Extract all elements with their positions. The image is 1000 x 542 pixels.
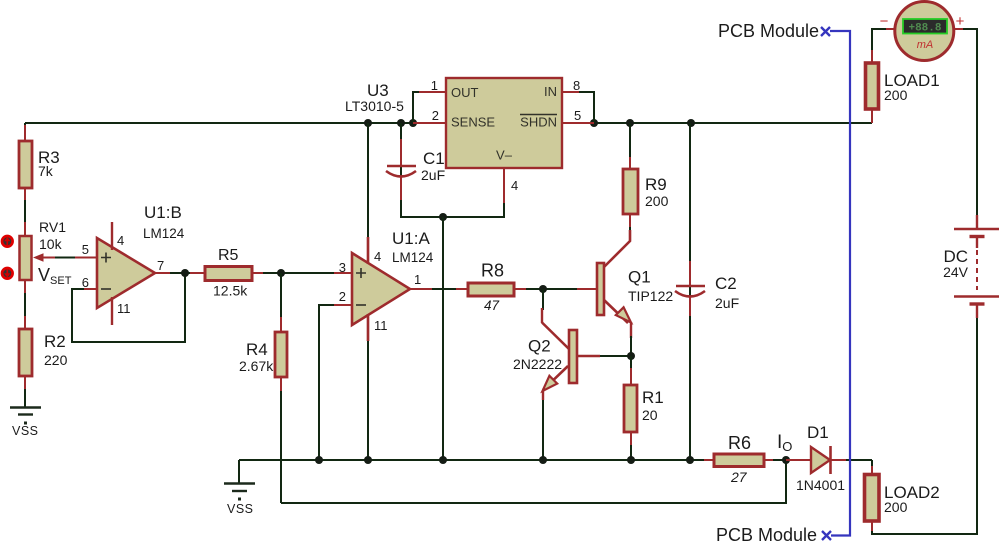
svg-text:4: 4 — [511, 178, 518, 193]
svg-text:LM124: LM124 — [392, 250, 434, 265]
svg-text:PCB Module: PCB Module — [716, 525, 817, 542]
wire: U3 pin2 SENSE to bus — [413, 122, 446, 124]
wire: node down to Q2 collector — [542, 289, 544, 310]
svg-text:IN: IN — [544, 84, 557, 99]
ground VSS (left) — [10, 408, 41, 439]
wire: R5 to U1:A pin3 — [252, 272, 352, 274]
svg-text:2.67k: 2.67k — [239, 358, 274, 374]
wire: C2 branch from bus to ground bus — [689, 123, 691, 460]
wire: D1 cathode to LOAD2 — [830, 460, 872, 475]
svg-text:PCB Module: PCB Module — [718, 21, 819, 41]
svg-text:SENSE: SENSE — [451, 115, 495, 130]
svg-text:2: 2 — [432, 108, 439, 123]
resistor LOAD1 — [866, 63, 940, 109]
svg-text:5: 5 — [574, 108, 581, 123]
svg-text:10k: 10k — [39, 236, 63, 252]
junction: R5/R4/pin3 node — [277, 269, 285, 277]
wire: R9 branch from bus — [629, 123, 631, 169]
potentiometer RV1 — [2, 219, 72, 287]
svg-text:47: 47 — [484, 298, 500, 313]
wire: Q2 base to emitter node of Q1 — [600, 355, 631, 357]
svg-text:D1: D1 — [807, 423, 829, 442]
svg-text:R6: R6 — [728, 433, 751, 453]
resistor R5 — [205, 247, 252, 299]
wire: U1:A pin4 from top bus — [367, 123, 369, 263]
svg-text:1N4001: 1N4001 — [796, 477, 845, 493]
transistor Q1 (TIP122) — [597, 230, 673, 338]
wire: ground bus (bottom) — [239, 459, 714, 461]
wire: Io node to D1 anode — [786, 459, 811, 461]
wire: top positive bus — [25, 122, 872, 124]
svg-text:R2: R2 — [44, 332, 66, 351]
svg-text:LT3010-5: LT3010-5 — [345, 98, 404, 114]
svg-text:4: 4 — [374, 249, 381, 264]
svg-text:−: − — [880, 13, 889, 30]
wire: R9 to Q1 collector — [629, 214, 631, 232]
svg-text:12.5k: 12.5k — [213, 283, 248, 299]
svg-text:VSS: VSS — [227, 502, 254, 516]
diode D1 (1N4001) — [796, 423, 845, 493]
svg-text:200: 200 — [884, 87, 908, 103]
svg-text:4: 4 — [117, 233, 124, 248]
svg-text:C1: C1 — [423, 149, 445, 168]
resistor R1 — [624, 385, 664, 432]
svg-text:R4: R4 — [246, 340, 268, 359]
svg-text:6: 6 — [82, 275, 89, 290]
svg-text:R5: R5 — [218, 247, 239, 264]
resistor R4 — [239, 332, 287, 377]
wire: C1 branch (bus to V- pin of U3) — [401, 123, 504, 217]
svg-text:SHDN: SHDN — [520, 115, 557, 130]
wire: Q1 emitter to junction — [630, 336, 632, 356]
wire: Q2 emitter down to ground bus — [542, 391, 544, 460]
wire: U3 pin5 SHDN to bus — [562, 122, 594, 124]
wire: U1:A output to R8 — [410, 288, 468, 290]
battery DC 24V — [943, 215, 999, 318]
svg-text:R8: R8 — [481, 261, 504, 281]
svg-text:3: 3 — [339, 260, 346, 275]
svg-text:Q2: Q2 — [528, 337, 551, 356]
svg-text:200: 200 — [884, 499, 908, 515]
junction: C1 bottom / V- node — [439, 213, 447, 221]
wire: U1:A pin11 to ground bus — [367, 313, 369, 460]
svg-text:OUT: OUT — [451, 85, 479, 100]
svg-text:LM124: LM124 — [143, 226, 185, 241]
wire: battery positive up to ammeter + — [954, 29, 977, 215]
wire: junction down to R1 — [630, 356, 632, 385]
svg-text:+: + — [956, 13, 965, 30]
svg-text:mA: mA — [917, 39, 934, 51]
svg-text:20: 20 — [642, 407, 658, 423]
svg-text:1: 1 — [414, 272, 421, 287]
svg-text:U1:A: U1:A — [392, 229, 430, 248]
svg-text:Q1: Q1 — [628, 268, 651, 287]
wire: V- node down to ground bus — [442, 217, 444, 460]
wire: LOAD1 bottom to top bus — [871, 109, 873, 123]
PCB Module terminal (bottom) — [716, 525, 831, 542]
svg-text:8: 8 — [573, 78, 580, 93]
svg-text:200: 200 — [645, 193, 669, 209]
wire: ammeter - terminal to LOAD1 — [872, 29, 894, 63]
svg-text:11: 11 — [374, 318, 388, 333]
svg-text:+88.8: +88.8 — [908, 23, 941, 35]
junction: U1:B output node — [181, 269, 189, 277]
wire: current feedback (lower run) to Io node — [281, 460, 786, 503]
resistor R8 — [468, 261, 514, 314]
svg-text:27: 27 — [730, 469, 748, 485]
op-amp U1:B (LM124) — [82, 203, 185, 325]
resistor R2 — [19, 329, 68, 376]
svg-text:RV1: RV1 — [39, 219, 66, 235]
svg-text:2uF: 2uF — [421, 167, 445, 183]
wire: U1:B feedback loop to pin6 — [72, 273, 185, 342]
resistor LOAD2 — [865, 475, 940, 522]
svg-text:2uF: 2uF — [715, 295, 739, 311]
svg-text:R1: R1 — [642, 388, 664, 407]
wire: U1:A pin2 to ground bus — [319, 305, 352, 460]
resistor R6 — [714, 433, 764, 485]
wire: U1:B output to R5 — [155, 272, 205, 274]
transistor Q2 (2N2222, mirrored) — [513, 308, 600, 391]
wire: RV1 wiper to U1:B pin5 — [55, 257, 97, 259]
capacitor C2 — [675, 274, 739, 311]
svg-text:2N2222: 2N2222 — [513, 356, 562, 372]
svg-text:C2: C2 — [715, 274, 737, 293]
svg-text:220: 220 — [44, 352, 68, 368]
svg-text:1: 1 — [431, 78, 438, 93]
wire: left column (bus to VSS ground) — [24, 123, 26, 407]
PCB Module terminal (top) — [718, 21, 830, 41]
svg-text:7: 7 — [157, 258, 164, 273]
op-amp U1:A (LM124) — [339, 229, 434, 341]
svg-text:5: 5 — [82, 242, 89, 257]
svg-text:7k: 7k — [38, 163, 54, 179]
svg-text:R9: R9 — [645, 175, 667, 194]
wire: U3 pin1 OUT to bus — [413, 92, 446, 123]
wire: R1 to ground bus — [630, 432, 632, 460]
ammeter (mA) — [880, 2, 965, 61]
wire: LOAD2 bottom to battery negative — [872, 305, 977, 534]
resistor R9 — [623, 169, 669, 214]
svg-text:TIP122: TIP122 — [628, 288, 673, 304]
junction dots on ground bus — [315, 456, 694, 464]
wire: U3 pin8 IN to pin5 node — [562, 92, 594, 123]
svg-text:2: 2 — [339, 289, 346, 304]
ground VSS (bottom, x=239) — [224, 460, 255, 516]
capacitor C1 — [386, 149, 445, 183]
wire: R4 branch down — [280, 273, 282, 503]
wire: blue PCB module link — [830, 31, 850, 536]
svg-text:11: 11 — [117, 301, 131, 316]
junction: Q1 emitter / Q2 base / R1 — [627, 352, 635, 360]
resistor R3 — [19, 141, 60, 188]
wire: R6 to Io node — [764, 459, 786, 461]
svg-text:U1:B: U1:B — [144, 203, 182, 222]
regulator U3 (LT3010-5) — [345, 78, 581, 193]
junction: R8/Q1 base/Q2 collector node — [539, 285, 547, 293]
svg-text:24V: 24V — [943, 264, 969, 280]
wire: R8 to Q1 base — [514, 288, 597, 290]
svg-text:VSS: VSS — [12, 424, 39, 438]
svg-text:V–: V– — [496, 148, 513, 163]
junction dots on top bus — [364, 119, 695, 127]
node Io — [777, 432, 792, 464]
